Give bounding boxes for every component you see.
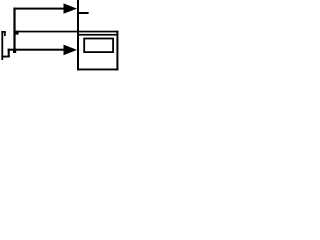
arrowhead on bottom wire	[64, 45, 78, 56]
screen: inner rectangle of monitor	[84, 39, 113, 53]
wire: bottom horizontal wire	[8, 49, 65, 51]
wire: short tick branch near top right	[79, 12, 89, 14]
wire: left loop bottom bar	[1, 56, 9, 58]
wire: top horizontal wire	[13, 8, 64, 10]
monitor box bottom edge	[77, 69, 118, 71]
wire: middle horizontal wire (continues as box top edge)	[13, 31, 118, 33]
background	[0, 0, 120, 76]
wire: left loop right vertical riser	[8, 49, 10, 58]
junction dot at bus/bottom wire	[13, 49, 16, 53]
wire: left loop short descender (end stub)	[4, 31, 6, 36]
wire: vertical bus line	[13, 8, 15, 53]
monitor box right edge	[116, 31, 118, 71]
wire: left loop top bar	[1, 31, 5, 33]
monitor box inner top line (double top border)	[79, 34, 118, 36]
arrowhead on top wire	[64, 3, 78, 13]
wire: left loop left vertical	[1, 31, 3, 60]
junction dot at bus/middle wire	[15, 31, 18, 35]
monitor box left edge (tall vertical from top of image)	[77, 0, 79, 70]
